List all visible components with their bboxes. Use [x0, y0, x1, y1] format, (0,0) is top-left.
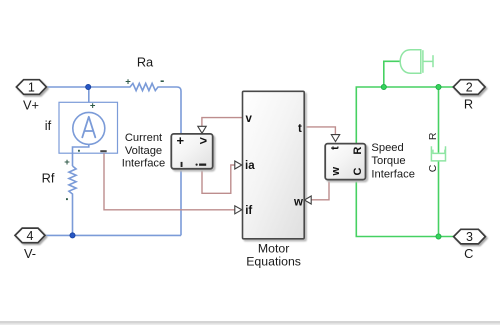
interface bottom-right port dot-dash	[196, 164, 198, 166]
Current Voltage Interface block	[171, 134, 212, 169]
resistor Rf zigzag	[69, 166, 76, 235]
port 3 hexagon	[454, 229, 486, 244]
polarity mark - at Rf	[66, 198, 68, 200]
port 1 hexagon	[16, 80, 46, 95]
svg-text:C: C	[352, 167, 364, 175]
inertia symbol (rotor)	[400, 50, 433, 73]
junction node V-	[70, 233, 75, 238]
junction node V+	[86, 84, 91, 89]
svg-text:t: t	[298, 123, 302, 135]
svg-text:Motor: Motor	[258, 242, 289, 256]
svg-text:+: +	[177, 133, 185, 148]
svg-text:+: +	[64, 157, 70, 168]
signal wire: motor v to current voltage interface	[202, 118, 243, 127]
svg-text:Ra: Ra	[137, 55, 154, 70]
bottom gray bar	[0, 321, 500, 324]
wire: green right vertical through damper	[438, 87, 440, 237]
svg-text:ia: ia	[245, 160, 255, 172]
arrowhead into motor if	[235, 206, 242, 214]
interface bottom-left port tick	[181, 162, 183, 167]
svg-text:>: >	[200, 133, 208, 148]
Motor Equations block	[243, 91, 305, 239]
svg-text:R: R	[464, 96, 473, 111]
svg-text:Equations: Equations	[246, 255, 301, 269]
input triangle into speed interface t port	[331, 135, 339, 142]
signal wire: interface ia output to motor ia	[202, 165, 235, 193]
arrowhead into motor w	[304, 196, 311, 204]
wire: V+ rail with resistor Ra zigzag and right vertical down to V- rail	[47, 83, 182, 235]
wire: ammeter internal bottom jog to Rf	[73, 145, 89, 167]
svg-text:4: 4	[27, 229, 34, 243]
svg-text:w: w	[293, 196, 303, 208]
svg-text:3: 3	[466, 230, 473, 244]
svg-text:C: C	[464, 246, 473, 261]
svg-text:Interface: Interface	[122, 158, 166, 170]
port 2 hexagon	[453, 80, 485, 95]
svg-text:Rf: Rf	[42, 171, 55, 186]
svg-text:Current: Current	[125, 132, 163, 144]
svg-text:R: R	[427, 132, 439, 140]
wire: V- bottom rail	[45, 234, 181, 236]
svg-text:Voltage: Voltage	[125, 145, 162, 157]
svg-text:V-: V-	[24, 246, 36, 261]
signal wire: speed interface w to motor w	[311, 181, 329, 199]
svg-text:Interface: Interface	[371, 168, 415, 180]
polarity mark - at Ra	[161, 80, 164, 82]
svg-text:1: 1	[28, 81, 35, 95]
port 4 hexagon	[15, 228, 45, 243]
svg-text:Speed: Speed	[371, 142, 403, 154]
wire: lead to inertia symbol	[384, 61, 401, 87]
svg-text:2: 2	[466, 81, 473, 95]
junction node R rail right	[436, 84, 441, 89]
wire: green R/C rails (top, left vertical, bottom)	[356, 87, 453, 237]
signal wire: motor t to speed torque interface	[304, 127, 335, 135]
svg-text:C: C	[427, 164, 439, 172]
svg-text:+: +	[90, 100, 96, 111]
input triangle into interface > port	[198, 126, 206, 133]
rotational damper symbol	[431, 146, 445, 161]
current sensor if box	[59, 102, 118, 153]
signal wire: current sensor to motor if	[104, 153, 235, 210]
svg-text:if: if	[245, 205, 252, 217]
svg-text:v: v	[246, 113, 253, 125]
svg-text:Torque: Torque	[371, 155, 405, 167]
svg-text:if: if	[45, 118, 52, 133]
ammeter circle with A glyph	[73, 112, 105, 144]
polarity mark - inside ammeter	[78, 150, 80, 152]
sensor output minus mark	[100, 150, 106, 152]
junction node R rail left	[381, 84, 386, 89]
wire: junction to ammeter top terminal	[87, 87, 90, 113]
svg-text:t: t	[330, 146, 342, 150]
arrowhead into motor ia	[235, 161, 242, 169]
svg-text:w: w	[330, 166, 342, 176]
junction node C rail	[436, 234, 441, 239]
svg-text:+: +	[125, 77, 131, 88]
svg-text:V+: V+	[23, 98, 39, 113]
svg-text:R: R	[352, 147, 364, 155]
Speed Torque Interface block	[325, 144, 365, 180]
